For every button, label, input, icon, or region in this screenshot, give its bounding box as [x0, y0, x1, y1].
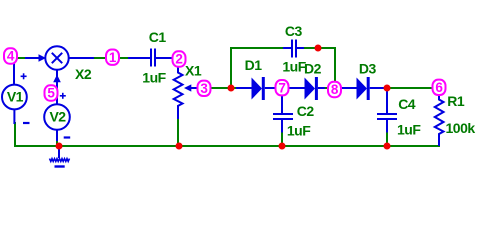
- svg-text:7: 7: [278, 80, 286, 95]
- svg-text:C3: C3: [285, 23, 303, 39]
- V2 minus: [64, 136, 70, 138]
- svg-text:V1: V1: [7, 89, 24, 105]
- wire X2 out to C1: [94, 57, 128, 59]
- junction dot C4 bottom: [384, 143, 391, 150]
- X2 input arrow left: [39, 54, 47, 62]
- op-amp multiplier X2: [25, 46, 94, 104]
- capacitor C3: [283, 40, 304, 58]
- junction dot X1 bottom: [176, 143, 183, 150]
- ground: [50, 146, 70, 167]
- svg-text:C1: C1: [149, 29, 167, 45]
- svg-text:1uF: 1uF: [287, 122, 311, 138]
- wire C3 branch right: [304, 47, 336, 49]
- potentiometer X1: [174, 67, 198, 120]
- wire X1 bottom to rail: [177, 119, 179, 146]
- svg-text:2: 2: [175, 52, 183, 67]
- diode D1: [236, 77, 276, 100]
- X1 wiper arrow: [184, 84, 191, 91]
- svg-text:C2: C2: [297, 103, 315, 119]
- capacitor C1: [128, 49, 173, 67]
- svg-text:1uF: 1uF: [142, 69, 166, 85]
- junction dot C4 top: [384, 85, 391, 92]
- svg-text:3: 3: [200, 81, 208, 96]
- diode D2: [289, 77, 325, 100]
- svg-text:C4: C4: [398, 96, 416, 112]
- node 6: [433, 80, 446, 95]
- svg-text:4: 4: [7, 49, 15, 64]
- capacitor C4: [377, 88, 397, 133]
- diode D3: [341, 77, 385, 100]
- resistor R1: [435, 95, 444, 146]
- V1 plus: [21, 73, 27, 79]
- svg-text:V2: V2: [49, 109, 66, 125]
- node 8: [328, 82, 341, 97]
- svg-text:D3: D3: [359, 60, 377, 76]
- node 4: [4, 48, 17, 63]
- svg-text:6: 6: [435, 80, 443, 95]
- svg-text:8: 8: [331, 82, 339, 97]
- svg-text:D1: D1: [245, 57, 263, 73]
- wire C4 bottom to rail: [386, 132, 388, 146]
- svg-text:X2: X2: [75, 66, 92, 82]
- wire D3 to node6: [384, 87, 433, 89]
- svg-text:D2: D2: [304, 61, 322, 77]
- X2 input arrow bottom: [53, 75, 61, 83]
- junction dot D1 branch: [228, 85, 235, 92]
- wire D2 to node8: [324, 87, 329, 89]
- junction dot C2 bottom: [279, 143, 286, 150]
- svg-text:5: 5: [47, 86, 55, 101]
- wire junction up to C3 branch: [230, 47, 232, 88]
- svg-text:1uF: 1uF: [397, 121, 421, 137]
- wire node4 to X2: [17, 57, 25, 59]
- source V1: [2, 63, 27, 124]
- node 3: [198, 81, 211, 96]
- wire V2 bottom to rail: [56, 140, 58, 146]
- V2 plus: [60, 93, 66, 99]
- source V2: [44, 104, 70, 141]
- svg-text:X1: X1: [185, 62, 202, 78]
- junction dot C3 branch: [315, 45, 322, 52]
- node 5: [45, 85, 58, 100]
- node 2: [173, 51, 186, 66]
- wire C3 branch left: [230, 47, 283, 49]
- wire node3 to D1 junction: [210, 87, 244, 89]
- wire C2 bottom to rail: [281, 132, 283, 146]
- V1 minus: [23, 122, 30, 124]
- svg-text:1: 1: [109, 50, 117, 65]
- svg-text:R1: R1: [447, 93, 465, 109]
- wire C3 branch down to node8: [334, 47, 336, 82]
- ground rail: [15, 122, 439, 146]
- svg-text:100k: 100k: [446, 120, 476, 136]
- capacitor C2: [273, 96, 293, 133]
- node 1: [106, 50, 119, 65]
- junction dot ground: [56, 143, 63, 150]
- node 7: [276, 80, 289, 95]
